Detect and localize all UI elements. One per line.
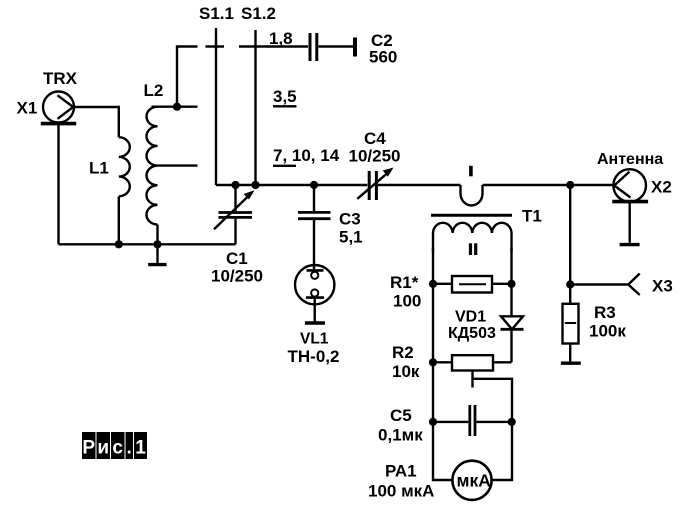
svg-text:R1*: R1* xyxy=(390,273,419,292)
svg-text:мкА: мкА xyxy=(457,471,492,491)
node C1 junction xyxy=(231,181,239,189)
svg-text:S1.2: S1.2 xyxy=(241,4,276,23)
svg-text:и: и xyxy=(97,438,109,459)
resistor R2 trimmer xyxy=(433,355,512,422)
wire dashed segment xyxy=(206,45,225,47)
neon lamp VL1 xyxy=(295,265,334,322)
switch S1.1 line xyxy=(215,28,217,185)
transformer T1 core xyxy=(431,214,512,217)
svg-text:C4: C4 xyxy=(364,129,386,148)
wire X1 to L1 top xyxy=(74,107,119,137)
node X3 junction xyxy=(566,280,574,288)
svg-text:100: 100 xyxy=(393,292,421,311)
wire bottom bus xyxy=(59,243,236,245)
svg-text:R3: R3 xyxy=(594,303,616,322)
svg-text:T1: T1 xyxy=(522,207,542,226)
capacitor C1 variable xyxy=(214,185,255,244)
capacitor C3 xyxy=(298,185,331,269)
wire L2 riser to switch line xyxy=(177,47,198,107)
resistor R3 xyxy=(563,285,579,362)
wire bus T1 to X2 xyxy=(483,184,614,186)
svg-text:560: 560 xyxy=(369,48,397,67)
svg-text:VD1: VD1 xyxy=(455,309,486,326)
connector X3 xyxy=(628,274,639,296)
svg-text:100к: 100к xyxy=(589,322,626,341)
node R1 left xyxy=(429,280,437,288)
svg-text:10к: 10к xyxy=(392,362,420,381)
svg-text:C1: C1 xyxy=(226,249,248,268)
ground under R3 xyxy=(561,362,581,365)
svg-text:C5: C5 xyxy=(390,406,412,425)
svg-text:R2: R2 xyxy=(392,343,414,362)
inductor L2 xyxy=(147,107,198,245)
label II xyxy=(469,243,472,255)
node R1 right xyxy=(507,280,515,288)
label 3,5 xyxy=(273,87,297,106)
node C5 right xyxy=(508,418,516,426)
connector X1 xyxy=(41,92,76,124)
label I xyxy=(469,166,473,177)
wire right rail upper xyxy=(510,248,512,316)
label 7, 10, 14 xyxy=(273,146,340,166)
ground under VL1 xyxy=(305,321,325,325)
node L2 bottom xyxy=(153,240,161,248)
wire right rail lower xyxy=(491,422,513,480)
caption Рис.1 xyxy=(82,432,147,459)
svg-text:Р: Р xyxy=(82,438,95,459)
svg-text:5,1: 5,1 xyxy=(339,228,363,247)
svg-text:1,8: 1,8 xyxy=(269,29,293,48)
wire X1 stem down xyxy=(57,124,59,245)
node S1.2 junction xyxy=(251,181,259,189)
svg-text:0,1мк: 0,1мк xyxy=(378,426,423,445)
svg-text:7, 10, 14: 7, 10, 14 xyxy=(273,146,340,165)
node antenna branch xyxy=(566,181,574,189)
svg-text:100 мкА: 100 мкА xyxy=(368,482,434,501)
svg-text:1: 1 xyxy=(135,438,146,459)
svg-text:X3: X3 xyxy=(652,277,673,296)
svg-text:S1.1: S1.1 xyxy=(199,4,234,23)
svg-text:Антенна: Антенна xyxy=(597,151,663,168)
capacitor C2 xyxy=(310,33,355,61)
svg-text:X1: X1 xyxy=(17,99,38,118)
svg-text:L1: L1 xyxy=(89,159,109,178)
capacitor C4 variable xyxy=(357,168,393,201)
meter PA1 xyxy=(452,461,491,500)
transformer T1 primary winding I xyxy=(461,185,483,206)
svg-text:РА1: РА1 xyxy=(385,462,417,481)
svg-text:10/250: 10/250 xyxy=(349,147,401,166)
inductor L1 xyxy=(119,137,130,196)
svg-text:ТН-0,2: ТН-0,2 xyxy=(288,347,340,366)
ground under X2 xyxy=(620,243,640,246)
diode VD1 xyxy=(501,316,524,362)
wire left rail xyxy=(433,248,453,480)
node L2 top junction xyxy=(173,103,181,111)
svg-text:3,5: 3,5 xyxy=(273,87,297,106)
svg-text:X2: X2 xyxy=(651,178,672,197)
wire to C2 xyxy=(239,45,308,47)
node C3 junction xyxy=(310,181,318,189)
transformer T1 secondary winding II xyxy=(433,223,512,252)
capacitor C5 xyxy=(433,405,512,436)
node R2 left xyxy=(429,358,437,366)
svg-text:с: с xyxy=(112,438,123,459)
wire L1 bottom xyxy=(118,196,120,244)
wire to X3 xyxy=(570,283,628,285)
wire antenna branch down xyxy=(569,185,571,285)
svg-text:C3: C3 xyxy=(339,210,361,229)
svg-text:VL1: VL1 xyxy=(300,331,329,348)
wire main bus xyxy=(216,184,367,186)
ground under L2 xyxy=(148,244,166,264)
svg-text:L2: L2 xyxy=(144,81,164,100)
node C5 left xyxy=(429,418,437,426)
wire bus C4 to T1 xyxy=(378,184,461,186)
switch S1.2 line xyxy=(254,30,256,185)
svg-text:КД503: КД503 xyxy=(448,325,496,342)
svg-text:10/250: 10/250 xyxy=(211,267,263,286)
node L1 bottom xyxy=(115,240,123,248)
resistor R1 xyxy=(433,276,512,293)
connector X2 antenna xyxy=(612,169,648,243)
svg-text:.: . xyxy=(127,438,132,459)
svg-text:TRX: TRX xyxy=(43,69,78,88)
